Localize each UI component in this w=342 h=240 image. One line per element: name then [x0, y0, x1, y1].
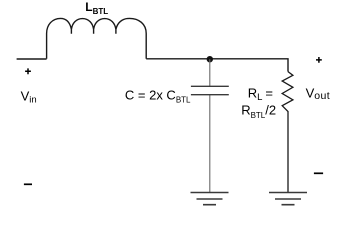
- svg-text:=: =: [265, 86, 273, 101]
- svg-text:RBTL/2: RBTL/2: [241, 103, 276, 121]
- svg-text:C = 2x CBTL: C = 2x CBTL: [125, 88, 191, 105]
- svg-text:Vout: Vout: [306, 85, 330, 102]
- svg-text:LBTL: LBTL: [85, 0, 108, 16]
- svg-text:RL: RL: [248, 86, 263, 103]
- svg-text:Vin: Vin: [21, 89, 37, 106]
